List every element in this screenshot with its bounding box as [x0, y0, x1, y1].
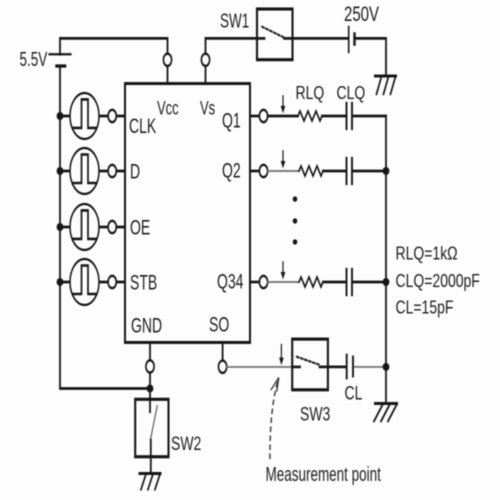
node junction dot CLK row [57, 112, 64, 120]
svg-text:Q34: Q34 [217, 270, 244, 294]
switch SW2 box [135, 399, 168, 456]
svg-text:CL=15pF: CL=15pF [396, 298, 454, 318]
ground GND1 top right [375, 76, 396, 94]
arrow down at Q34 [281, 262, 286, 279]
svg-text:OE: OE [130, 216, 150, 240]
switch SW2 blade (thin) [151, 406, 158, 440]
wire Q2 circle to resistor (gray thin) [268, 170, 299, 172]
arrow down at SO / measurement point [279, 345, 284, 365]
wire 250V to top-right ground [356, 38, 386, 76]
measurement point arrow (dashed, curved) [270, 378, 279, 460]
wire D row [60, 170, 125, 172]
switch SW1 box [257, 9, 293, 60]
svg-text:CLK: CLK [129, 114, 156, 138]
wire Q1 row [250, 115, 298, 117]
wire Q2 cap to bus [353, 170, 386, 172]
svg-text:SW2: SW2 [171, 433, 201, 455]
node junction dot bus Q34 [383, 278, 390, 286]
node junction dot OE row [57, 223, 64, 231]
wire STB row [60, 281, 125, 283]
resistor RLQ (Q2) [299, 166, 323, 176]
switch SW3 box [292, 339, 328, 390]
terminal circle SO [219, 361, 227, 373]
svg-text:RLQ=1kΩ: RLQ=1kΩ [396, 244, 458, 264]
capacitor CL [347, 355, 353, 378]
capacitor CLQ (Q1) [347, 103, 353, 129]
terminal circle Q2 [259, 165, 267, 177]
wire SW3 to CL cap [328, 366, 346, 368]
svg-text:250V: 250V [344, 1, 380, 25]
wire Q2 resistor to cap [323, 170, 345, 172]
wire GND stub below IC [149, 342, 151, 388]
capacitor CLQ (Q34) [347, 269, 353, 295]
arrow down at Q1 [281, 96, 286, 113]
wire left bus vertical [60, 66, 150, 389]
node junction dot GND/left bus [147, 384, 154, 392]
resistor RLQ (Q1) [298, 111, 322, 121]
wire Q34 cap to bus [353, 281, 386, 283]
svg-text:RLQ: RLQ [296, 84, 325, 104]
svg-text:CLQ=2000pF: CLQ=2000pF [396, 271, 480, 291]
pulse generator G3 (OE) [70, 204, 99, 250]
terminal circle Vcc stub [163, 54, 171, 66]
terminal circle Q34 [259, 276, 267, 288]
terminal circle Vs stub [201, 54, 209, 66]
svg-text:CLQ: CLQ [337, 84, 366, 104]
wire SO to SW3 (gray thin) [227, 366, 293, 368]
switch SW1 right contact stub [284, 37, 293, 39]
svg-text:D: D [130, 160, 140, 184]
node junction dot bus SW3 row [383, 363, 390, 371]
terminal circle CLK [108, 110, 116, 122]
svg-text:5.5V: 5.5V [20, 47, 48, 71]
svg-text:Q1: Q1 [222, 109, 241, 133]
switch SW3 blade (dashed) [297, 357, 320, 365]
wire Q34 circle to resistor (gray thin) [268, 281, 299, 283]
arrow down at Q2 [281, 151, 286, 168]
capacitor CLQ (Q2) [347, 158, 353, 184]
battery B1 5.5V short plate [56, 65, 65, 67]
wire Q1 cap to bus [353, 115, 386, 117]
switch SW3 right contact stub [320, 366, 328, 368]
IC U1 body [125, 84, 250, 343]
wire SW1 to 250V battery [293, 37, 348, 39]
svg-text:Q2: Q2 [222, 158, 241, 182]
node junction dot STB row [57, 278, 64, 286]
switch SW1 left contact stub [257, 37, 265, 39]
svg-text:SO: SO [209, 313, 229, 337]
svg-text:Vs: Vs [200, 97, 215, 119]
wire top rail from 5.5V battery to Vcc stub [60, 38, 168, 83]
terminal circle OE [108, 221, 116, 233]
switch SW2 bottom contact stub [150, 440, 152, 474]
battery B2 250V short plate [353, 34, 355, 44]
pulse generator G4 (STB) [70, 259, 99, 305]
wire Q1 resistor to cap [322, 115, 345, 117]
ellipsis dots between Q2 and Q34 [293, 196, 298, 244]
switch SW1 blade (dashed) [262, 27, 284, 38]
resistor RLQ (Q34) [299, 277, 323, 287]
svg-text:GND: GND [131, 314, 162, 338]
battery B2 250V long plate [348, 27, 350, 52]
wire OE row [60, 226, 125, 228]
wire Q34 resistor to cap [323, 281, 345, 283]
svg-text:SW3: SW3 [300, 403, 330, 425]
svg-text:CL: CL [345, 382, 363, 404]
ground GND2 below SW2 [140, 474, 161, 490]
switch SW2 top contact stub [149, 389, 151, 412]
wire Q2 row (thin) [250, 170, 260, 172]
wire SO stub below IC [222, 342, 224, 360]
svg-text:SW1: SW1 [220, 9, 249, 33]
svg-text:Vcc: Vcc [157, 97, 179, 119]
svg-text:Measurement point: Measurement point [266, 462, 382, 486]
wire CLK row [60, 115, 125, 117]
wire CL cap to bus [354, 366, 386, 368]
ground GND3 bottom right [374, 404, 397, 422]
node junction dot D row [57, 167, 64, 175]
wire Vs stub to SW1 [206, 38, 258, 83]
terminal circle D [108, 165, 116, 177]
wire Q34 row (stub) [250, 281, 260, 283]
battery B1 5.5V long plate [49, 53, 71, 55]
terminal circle Q1 [259, 110, 267, 122]
terminal circle GND [146, 360, 154, 372]
wire right bus vertical [385, 116, 387, 404]
terminal circle STB [108, 276, 116, 288]
node junction dot bus Q2 [383, 167, 390, 175]
pulse generator G1 (CLK) [70, 93, 99, 139]
pulse generator G2 (D) [70, 148, 99, 194]
svg-text:STB: STB [130, 271, 157, 295]
switch SW3 left contact stub [292, 366, 300, 368]
circuit graphics group (drawn in 500x333 space, stretched vertically) [49, 9, 397, 489]
